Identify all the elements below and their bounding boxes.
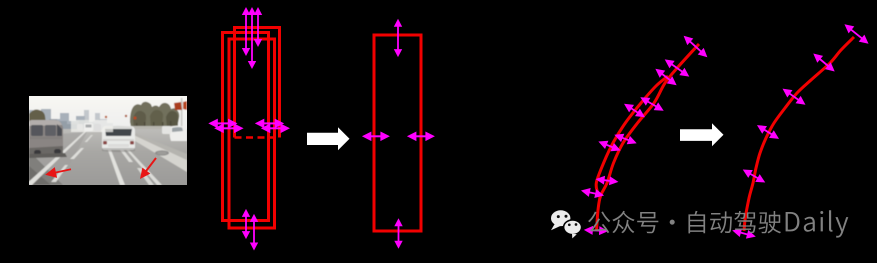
right cars: [170, 126, 187, 141]
curve2 top station arrow: [653, 65, 680, 89]
noisy lane curve 1: [597, 44, 700, 231]
sun glare haze at horizon center: [71, 120, 113, 132]
white arrow 1: [307, 127, 350, 150]
right uncertainty arrow lower: [261, 124, 290, 134]
lamp pole: [181, 98, 183, 132]
curves bottom station arrow: [584, 225, 609, 235]
distant cars center: [84, 123, 93, 131]
left uncertainty arrow lower: [214, 124, 243, 134]
wechat icon big bubble: [551, 210, 570, 230]
fused curve station 4 arrow: [755, 121, 782, 142]
fused curve bottom station arrow: [731, 226, 757, 241]
top uncertainty arrow 2: [248, 7, 256, 69]
fused bounding box: [374, 35, 421, 231]
curb / barrier right: [115, 129, 187, 172]
bounding box C (solid tall, offset): [229, 39, 275, 228]
curve1 station 2 arrow: [662, 56, 692, 81]
fused curve station 3 arrow: [780, 85, 808, 108]
curve2 station 4 arrow: [580, 186, 605, 200]
right uncertainty arrow upper: [255, 119, 284, 129]
road surface: [28, 129, 188, 186]
curve1 station 3 arrow: [638, 93, 666, 114]
autumn orange accents: [134, 117, 137, 120]
fused curve top station arrow: [842, 21, 872, 48]
lane line right: [109, 130, 162, 185]
curve1 station 5 arrow: [595, 175, 619, 187]
red banner top-right corner: [174, 102, 182, 110]
fused lane curve: [744, 37, 854, 231]
noisy lane curve 2: [596, 76, 668, 198]
wall/hedge below trees: [125, 126, 177, 132]
manhole: [155, 150, 169, 155]
red annotation arrow 2: [136, 155, 160, 182]
bottom uncertainty arrow 2: [250, 214, 258, 251]
buildings skyline left: [29, 109, 93, 129]
wechat icon big bubble eyes: [557, 215, 560, 218]
top uncertainty arrow 1: [242, 7, 250, 56]
left uncertainty arrow upper: [208, 119, 237, 129]
lane line left solid: [25, 130, 88, 185]
curve2 station 2 arrow: [622, 100, 648, 121]
white arrow 2: [680, 123, 724, 146]
red annotation arrow 1: [44, 164, 72, 180]
white SUV: [102, 126, 135, 152]
bottom uncertainty arrow 1: [242, 209, 250, 239]
van: [29, 120, 67, 158]
bounding box B (solid tall, leftmost): [223, 33, 269, 221]
wechat icon small bubble: [564, 220, 582, 238]
fused box top arrow: [394, 19, 402, 57]
fused box bottom arrow: [394, 218, 402, 248]
bounding box A (short, dashed bottom): [235, 28, 280, 138]
curve1 top station arrow: [681, 32, 711, 60]
curve1 station 4 arrow: [613, 130, 639, 147]
trees left behind van: [29, 110, 46, 127]
wechat icon small bubble eyes: [568, 223, 571, 226]
trees right row: [130, 102, 179, 131]
lane dashes center-right: [108, 136, 116, 144]
camera photo of road scene: [25, 95, 188, 186]
lane dashes center-left: [85, 135, 94, 142]
lane line center solid: [101, 130, 125, 185]
fused curve station 5 arrow: [740, 166, 767, 187]
watermark text: 公众号 · 自动驾驶Daily: [588, 211, 781, 234]
fused box left arrow: [362, 132, 390, 142]
top uncertainty arrow 3: [254, 7, 262, 47]
hazy center buildings: [93, 119, 113, 129]
curve2 station 3 arrow: [597, 137, 623, 154]
fused box right arrow: [407, 132, 435, 142]
fused curve station 2 arrow: [810, 50, 837, 75]
